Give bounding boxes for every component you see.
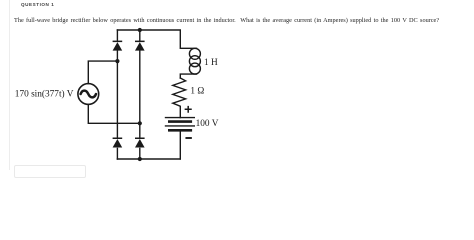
svg-text:100 V: 100 V — [196, 119, 219, 129]
svg-text:170 sin(377t) V: 170 sin(377t) V — [15, 89, 74, 100]
svg-text:1 H: 1 H — [204, 58, 218, 68]
svg-text:1 Ω: 1 Ω — [190, 86, 204, 96]
